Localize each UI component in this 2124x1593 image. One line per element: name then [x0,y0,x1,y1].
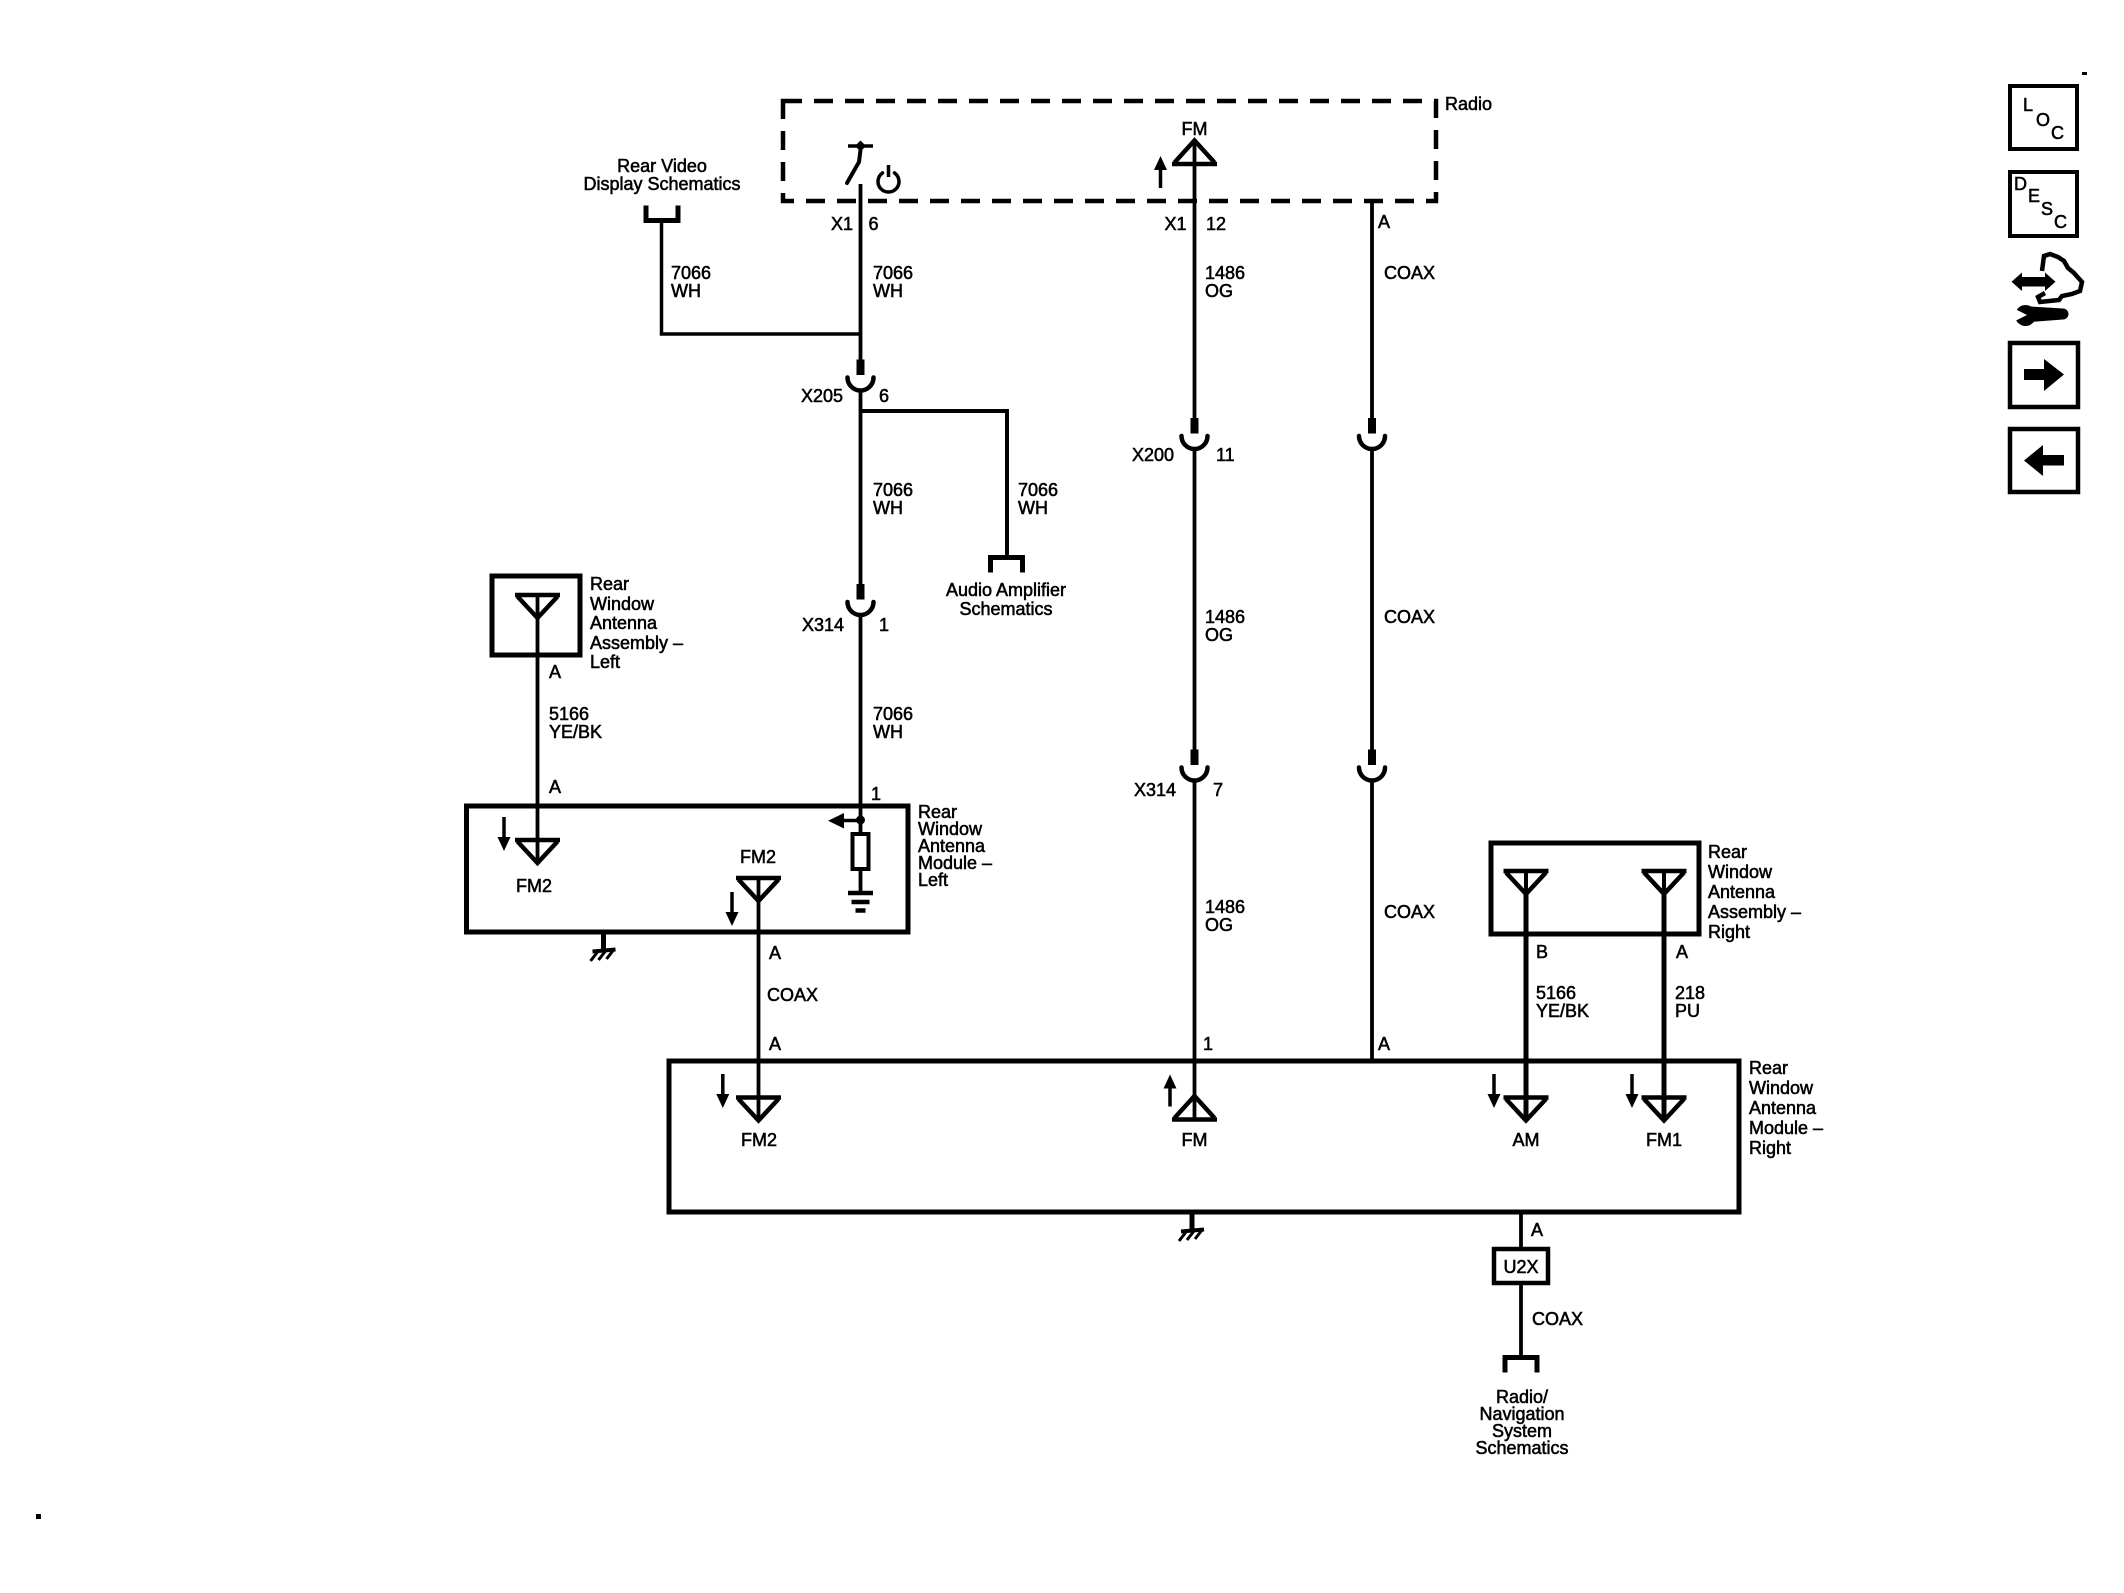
antenna AM (module right) [1504,1095,1549,1100]
svg-text:D: D [2014,174,2027,194]
antenna B (assembly right) [1504,869,1549,874]
svg-text:A: A [1676,942,1688,962]
connector X314 pin 1 [857,584,865,600]
wire X1-6 (radio to X205) [859,184,863,360]
wire 218 PU (A) [1662,894,1667,1121]
svg-text:FM1: FM1 [1646,1130,1682,1150]
wire module right to U2X [1519,1212,1523,1249]
icon double arrow [2012,273,2056,292]
connector on coax (upper) [1368,418,1376,434]
arrow left (termination) [844,819,858,823]
wire pin1 into module [859,806,863,834]
wire FM2 output to module right [757,878,761,1121]
svg-text:COAX: COAX [1384,902,1435,922]
svg-text:X1: X1 [1164,214,1186,234]
wire branch to audio amplifier [861,411,1008,555]
svg-text:Module –: Module – [1749,1118,1823,1138]
antenna symbol (assembly left) [515,593,560,598]
antenna FM1 (module right) [1642,1095,1687,1100]
svg-text:COAX: COAX [1384,607,1435,627]
svg-text:A: A [769,1034,781,1054]
box Rear Window Antenna Module - Right [669,1061,1739,1212]
wire COAX lower [1370,781,1374,1061]
wire from assembly-left antenna [536,595,540,862]
svg-text:1: 1 [871,784,881,804]
svg-text:5166: 5166 [1536,983,1576,1003]
icon arrow right [2024,369,2047,380]
svg-text:Schematics: Schematics [959,599,1052,619]
junction dot (pin1 module left) [856,816,865,825]
svg-text:OG: OG [1205,281,1233,301]
svg-text:Assembly –: Assembly – [590,633,683,653]
switch blade [847,150,861,183]
dashed box: Radio [783,101,1436,201]
svg-text:7066: 7066 [873,704,913,724]
antenna A (assembly right) [1642,869,1687,874]
svg-text:COAX: COAX [1384,263,1435,283]
svg-text:Rear: Rear [1749,1058,1788,1078]
svg-text:X205: X205 [801,386,843,406]
off-page connector to Radio/Navigation [1505,1358,1537,1373]
svg-text:Rear: Rear [590,574,629,594]
svg-text:12: 12 [1206,214,1226,234]
speck bottom left [36,1514,41,1519]
svg-text:Schematics: Schematics [1475,1438,1568,1458]
connector X200 pin 11 [1191,418,1199,434]
svg-text:L: L [2023,95,2033,115]
wire COAX A (radio down) [1370,201,1374,418]
svg-text:7066: 7066 [873,480,913,500]
wire FM apex [1193,1061,1197,1120]
icon arrow left [2042,455,2064,466]
svg-text:WH: WH [671,281,701,301]
svg-text:Rear: Rear [1708,842,1747,862]
antenna FM2 (module right) [736,1095,781,1100]
svg-text:FM2: FM2 [740,847,776,867]
svg-text:Radio: Radio [1445,94,1492,114]
svg-text:1: 1 [879,615,889,635]
svg-text:C: C [2051,123,2064,143]
svg-text:OG: OG [1205,915,1233,935]
antenna stem A [1662,871,1666,895]
svg-text:WH: WH [873,498,903,518]
resistor (termination, module left) [853,834,869,869]
icon box DESC [2010,172,2077,236]
svg-text:OG: OG [1205,625,1233,645]
svg-text:Left: Left [590,652,620,672]
svg-text:X200: X200 [1132,445,1174,465]
wire COAX mid [1370,450,1374,750]
antenna FM2 (module left, output) [736,876,781,881]
svg-text:AM: AM [1513,1130,1540,1150]
svg-text:A: A [1531,1220,1543,1240]
svg-text:Assembly –: Assembly – [1708,902,1801,922]
svg-text:7066: 7066 [671,263,711,283]
svg-text:6: 6 [869,214,879,234]
svg-text:7066: 7066 [1018,480,1058,500]
svg-text:COAX: COAX [767,985,818,1005]
svg-text:A: A [1378,1034,1390,1054]
svg-text:O: O [2036,110,2050,130]
wire X1-12 (FM to X200) [1193,142,1197,418]
svg-text:A: A [769,943,781,963]
svg-text:S: S [2041,199,2053,219]
arrow down (FM2 right) [721,1074,725,1096]
svg-text:FM2: FM2 [741,1130,777,1150]
box Rear Window Antenna Module - Left [467,806,909,932]
speck top right [2082,72,2087,75]
arrow down (FM1) [1630,1074,1634,1096]
connector U2X box [1494,1249,1548,1283]
svg-text:FM2: FM2 [516,876,552,896]
arrow down (FM2 output) [730,892,734,914]
wire 7066 WH from rear video display [662,223,861,334]
chassis ground (module right) [1190,1212,1195,1229]
svg-text:Display Schematics: Display Schematics [583,174,740,194]
wire 7066 WH below X205 [859,391,863,584]
arrow down (AM) [1492,1074,1496,1096]
connector X314 pin 7 [1191,750,1199,766]
icon pigtail outline [2038,254,2082,302]
wire 7066 WH to antenna module left [859,616,863,809]
svg-text:Right: Right [1708,922,1750,942]
svg-text:1486: 1486 [1205,263,1245,283]
svg-text:Right: Right [1749,1138,1791,1158]
wire 1486 OG lower [1193,781,1197,1061]
svg-text:7066: 7066 [873,263,913,283]
switch pivot diamond [855,141,866,152]
off-page connector to Rear Video Display [646,206,678,221]
box Rear Window Antenna Assembly - Right [1491,843,1699,934]
svg-text:1486: 1486 [1205,607,1245,627]
icon box arrow left [2010,429,2078,492]
svg-text:X314: X314 [1134,780,1176,800]
svg-text:WH: WH [873,722,903,742]
switch S (radio on/off) pivot bar [848,144,873,148]
svg-text:11: 11 [1216,445,1235,465]
svg-text:Rear Video: Rear Video [617,156,707,176]
svg-text:U2X: U2X [1503,1257,1538,1277]
connector on coax (lower) [1368,750,1376,766]
svg-text:C: C [2054,212,2067,232]
arrow up at FM antenna [1159,168,1163,188]
svg-text:WH: WH [873,281,903,301]
svg-text:PU: PU [1675,1001,1700,1021]
svg-text:Antenna: Antenna [1749,1098,1817,1118]
box Rear Window Antenna Assembly - Left [492,576,580,655]
svg-text:A: A [549,662,561,682]
svg-text:YE/BK: YE/BK [1536,1001,1589,1021]
antenna FM (module right) [1175,1096,1215,1118]
wire 1486 OG mid [1193,450,1197,750]
arrow down (FM2 left) [502,817,506,839]
svg-text:218: 218 [1675,983,1705,1003]
svg-text:B: B [1536,942,1548,962]
svg-text:Window: Window [590,594,655,614]
svg-text:X1: X1 [831,214,853,234]
svg-text:Antenna: Antenna [1708,882,1776,902]
icon box arrow right [2010,343,2078,407]
antenna FM2 (module left, input) [515,838,560,843]
svg-text:YE/BK: YE/BK [549,722,602,742]
wire resistor to ground [859,869,863,893]
svg-text:Window: Window [1749,1078,1814,1098]
svg-text:1: 1 [1203,1034,1213,1054]
svg-text:FM: FM [1182,1130,1208,1150]
power symbol circle [878,173,899,192]
arrow up (FM module right) [1168,1087,1172,1107]
svg-text:Antenna: Antenna [590,613,658,633]
svg-text:5166: 5166 [549,704,589,724]
earth ground (module left) [848,891,873,896]
svg-text:X314: X314 [802,615,844,635]
wire 5166 YE/BK (B) [1524,894,1529,1121]
icon box LOC [2010,86,2077,149]
connector X205 pin 6 [857,360,865,376]
svg-text:1486: 1486 [1205,897,1245,917]
chassis ground (module left) [601,932,606,949]
off-page connector to Audio Amplifier [991,558,1023,573]
svg-text:E: E [2028,186,2040,206]
antenna stem B [1524,871,1528,895]
svg-text:Audio Amplifier: Audio Amplifier [946,580,1066,600]
svg-text:Window: Window [1708,862,1773,882]
wire U2X to radio/nav [1519,1283,1523,1357]
svg-text:COAX: COAX [1532,1309,1583,1329]
svg-text:FM: FM [1182,119,1208,139]
svg-text:Left: Left [918,870,948,890]
svg-text:6: 6 [879,386,889,406]
svg-text:A: A [549,777,561,797]
svg-text:7: 7 [1213,780,1223,800]
icon wrench [2015,305,2036,326]
svg-text:A: A [1378,212,1390,232]
svg-text:WH: WH [1018,498,1048,518]
power symbol stroke [887,165,891,177]
antenna FM (radio) triangle [1175,141,1215,163]
